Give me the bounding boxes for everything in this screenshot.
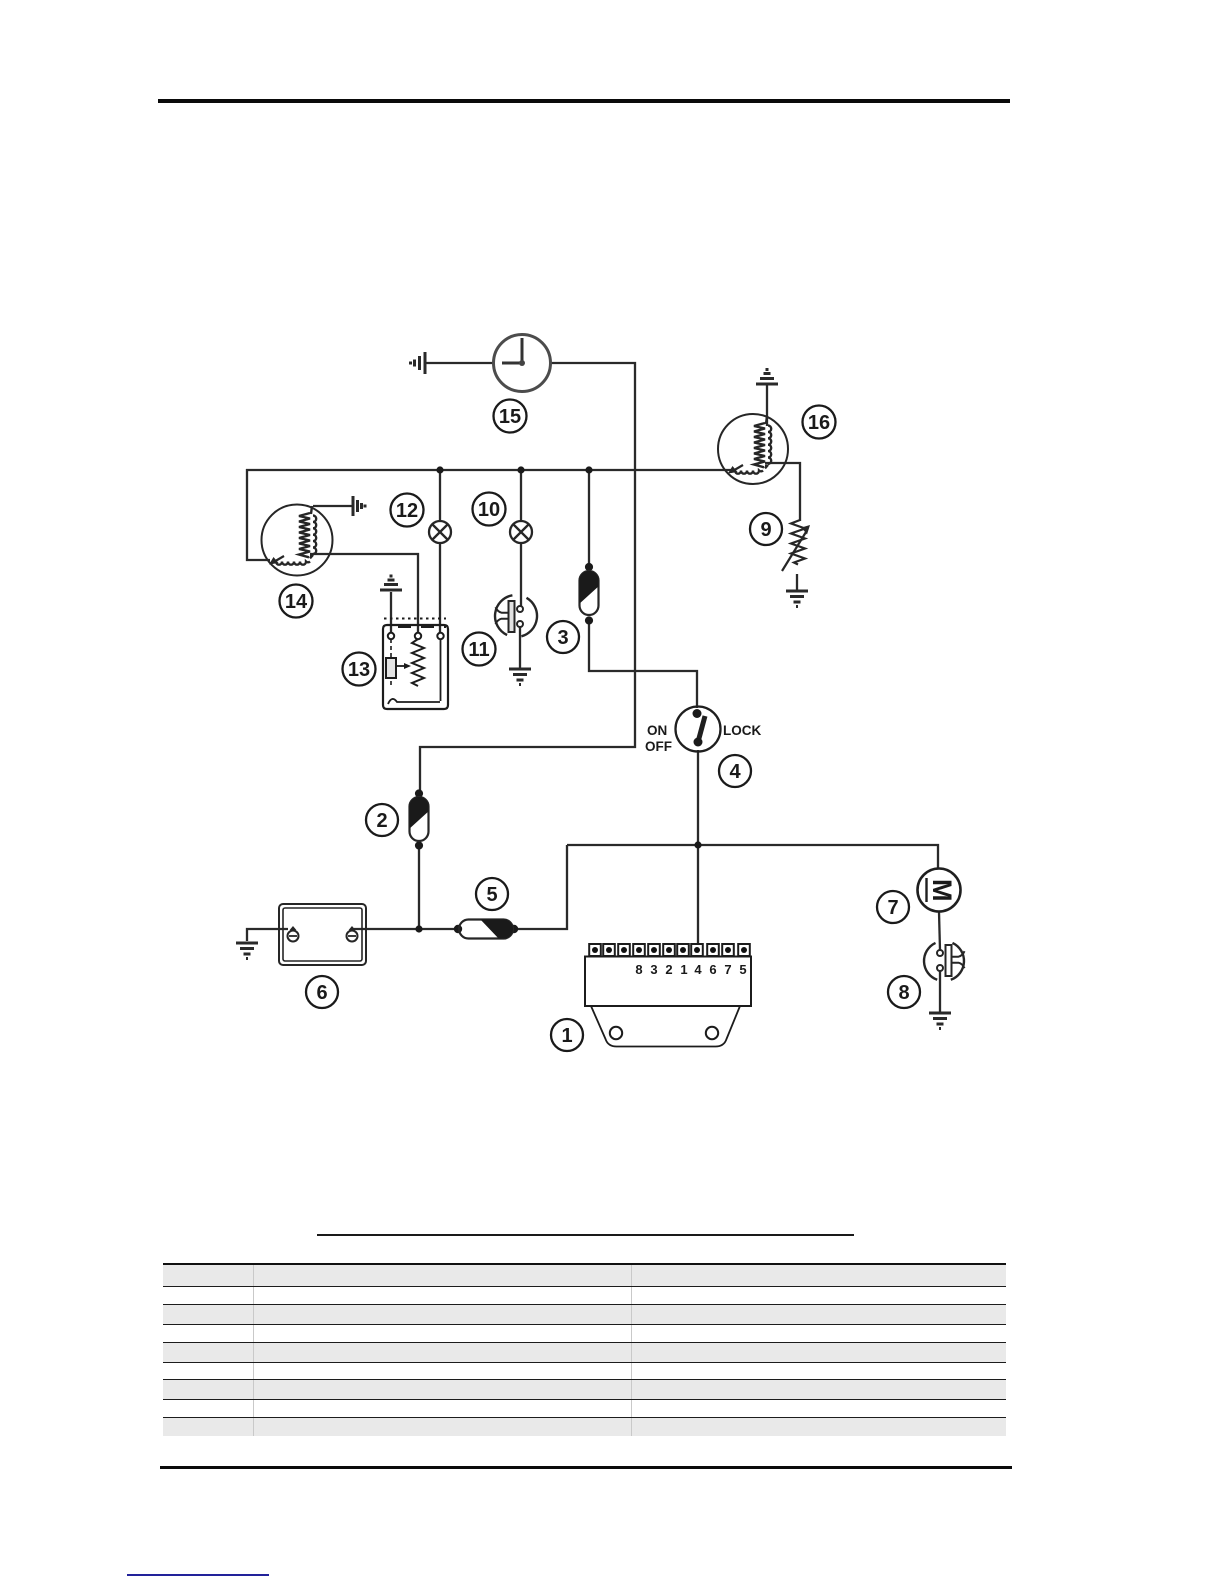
- label circle 12: [391, 494, 424, 527]
- ground (above ignition coil 16, inverted): [756, 370, 778, 385]
- svg-text:14: 14: [285, 591, 308, 613]
- junction at battery and fuse 2: [415, 925, 422, 932]
- label circle 6: [306, 976, 338, 1008]
- wire: feed line to starter motor 7: [567, 845, 938, 869]
- label circle 4: [719, 755, 751, 787]
- CDI pin numbers 8 3 2 1 4 6 7 5: [635, 962, 746, 977]
- svg-text:LOCK: LOCK: [723, 723, 761, 738]
- wire: lamp 12 lower lead into tank unit 13: [439, 543, 441, 633]
- fuel tank unit 13: [383, 619, 448, 710]
- svg-text:4: 4: [729, 761, 741, 783]
- svg-text:10: 10: [478, 499, 500, 521]
- label circle 9: [750, 513, 782, 545]
- wire: clock 15 right lead down to fuse 2: [420, 363, 635, 790]
- svg-text:9: 9: [760, 519, 771, 541]
- label circle 14: [280, 585, 313, 618]
- wire: battery negative to ground: [247, 929, 288, 941]
- label circle 10: [473, 493, 506, 526]
- battery 6: [279, 904, 366, 965]
- label circle 2: [366, 804, 398, 836]
- wire: battery to fuse 5: [352, 928, 456, 930]
- wire: junction down to CDI pin 4: [697, 845, 699, 944]
- wire: switch 11 to ground: [519, 627, 521, 668]
- brake switch 11: [495, 595, 537, 636]
- ground (below brake switch 8): [929, 1013, 951, 1029]
- wire: ignition switch 4 to junction: [697, 750, 699, 845]
- junction at bus and lamp 10: [517, 466, 524, 473]
- fuse 3: [578, 563, 600, 625]
- clock 15: [494, 335, 551, 392]
- svg-text:13: 13: [348, 659, 370, 681]
- svg-text:6: 6: [709, 962, 716, 977]
- brake switch 8: [924, 943, 964, 980]
- wire: magneto 14 output to tank unit 13: [310, 554, 418, 633]
- svg-text:1: 1: [561, 1025, 572, 1047]
- wire: fuse 3 upper lead: [588, 470, 590, 564]
- junction at bus and fuse 3: [585, 466, 592, 473]
- label circle 11: [463, 633, 496, 666]
- schematic SVG placeholder: [0, 0, 1224, 1230]
- wire: main bus: [246, 469, 731, 471]
- ground (right of magneto 14, sideways): [353, 496, 365, 516]
- top page rule: [158, 99, 1010, 103]
- ground (above tank unit 13, inverted): [380, 576, 402, 590]
- wire: lamp 12 upper lead: [439, 470, 441, 522]
- lamp 10: [510, 521, 532, 543]
- junction at ignition switch output: [694, 841, 701, 848]
- empty parts table: [163, 1263, 1006, 1436]
- label circle 8: [888, 976, 920, 1008]
- magneto 14: [262, 505, 333, 576]
- wire: lamp 10 lower lead to switch 11: [520, 543, 522, 606]
- wire: motor 7 to brake switch 8: [939, 912, 940, 950]
- svg-text:M: M: [927, 879, 957, 902]
- svg-text:1: 1: [680, 962, 687, 977]
- svg-text:OFF: OFF: [645, 739, 672, 754]
- ground (battery 6 negative): [236, 943, 258, 959]
- svg-text:7: 7: [887, 897, 898, 919]
- svg-text:6: 6: [316, 982, 327, 1004]
- label circle 5: [476, 878, 508, 910]
- svg-text:3: 3: [650, 962, 657, 977]
- label circle 13: [343, 653, 376, 686]
- wire: lamp 10 upper lead: [520, 470, 522, 522]
- svg-text:15: 15: [499, 406, 521, 428]
- blue link underline: [127, 1574, 269, 1576]
- wire: fuse 5 right lead up to feed line: [516, 845, 567, 929]
- ignition coil 16: [718, 414, 788, 484]
- label circle 1: [551, 1019, 583, 1051]
- svg-text:3: 3: [557, 627, 568, 649]
- text ON / OFF / LOCK for switch 4: [645, 723, 761, 754]
- variable resistor 9: [782, 520, 810, 571]
- label circle 7: [877, 891, 909, 923]
- svg-text:5: 5: [739, 962, 746, 977]
- fuse 2: [408, 789, 430, 849]
- starter motor 7: [918, 869, 961, 912]
- svg-text:12: 12: [396, 500, 418, 522]
- ground (below resistor 9): [786, 591, 808, 607]
- lamp 12: [429, 521, 451, 543]
- wire: tank unit 13 ground lead: [390, 592, 392, 633]
- svg-text:16: 16: [808, 412, 830, 434]
- ground (below switch 11): [509, 669, 531, 685]
- bottom page rule: [160, 1466, 1012, 1469]
- ground (left of clock 15, sideways): [411, 352, 426, 374]
- svg-text:2: 2: [376, 810, 387, 832]
- label circle 16: [803, 406, 836, 439]
- wire: brake switch 8 to ground: [939, 971, 941, 1012]
- ignition switch 4: [676, 707, 721, 752]
- wire: bus left drop to magneto 14: [247, 469, 270, 560]
- svg-text:8: 8: [898, 982, 909, 1004]
- table heading underline: [317, 1234, 854, 1236]
- svg-text:11: 11: [468, 639, 489, 661]
- svg-text:2: 2: [665, 962, 672, 977]
- CDI unit 1 body: [585, 957, 751, 1047]
- wire: clock 15 left lead: [426, 362, 493, 364]
- fuse 5: [454, 918, 518, 940]
- wire: ignition coil 16 output to resistor 9: [765, 463, 800, 521]
- CDI unit 1 connector squares: [589, 944, 750, 956]
- wire: fuse 2 lower lead: [418, 848, 420, 929]
- svg-text:ON: ON: [647, 723, 667, 738]
- junction at bus and lamp 12: [436, 466, 443, 473]
- svg-text:8: 8: [635, 962, 642, 977]
- svg-text:4: 4: [694, 962, 702, 977]
- svg-text:5: 5: [486, 884, 497, 906]
- wire: ignition coil 16 ground lead: [766, 385, 768, 426]
- wire: magneto 14 primary to ground lead: [313, 505, 352, 507]
- wire: resistor 9 to ground: [796, 574, 798, 590]
- label circle 15: [494, 400, 527, 433]
- wire: fuse 3 lower lead to ignition switch 4: [589, 623, 697, 708]
- svg-text:7: 7: [724, 962, 731, 977]
- label circle 3: [547, 621, 579, 653]
